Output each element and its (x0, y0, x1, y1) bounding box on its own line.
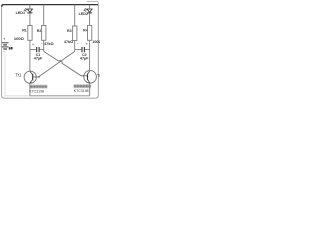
battery name 電池 (kana blobs) (9, 47, 13, 50)
svg-text:47kΩ: 47kΩ (44, 41, 54, 46)
wire LED2 to R4 (89, 13, 91, 26)
svg-text:100Ω: 100Ω (14, 36, 25, 41)
resistor R3 box (73, 26, 77, 41)
svg-text:+: + (32, 42, 35, 47)
capacitor C2 (81, 47, 83, 52)
node R2 branch wire (43, 5, 45, 26)
wire cross-coupling A (C1 node to Tr2 base) with hop (44, 51, 81, 75)
wire top VCC rail (2, 5, 98, 7)
svg-text:+: + (3, 37, 6, 42)
wire Tr2 emitter to ground (89, 83, 91, 96)
resistor R2 box (42, 26, 46, 41)
resistor R4 box (88, 26, 92, 41)
top-right stray border (87, 1, 99, 5)
wire C2 right lead (85, 49, 90, 51)
svg-text:47kΩ: 47kΩ (64, 40, 73, 44)
svg-text:R3: R3 (67, 29, 72, 33)
svg-text:R4: R4 (83, 29, 88, 33)
node LED1 branch wire (29, 5, 31, 9)
Tr1 part name トランジスタ (kana blobs) (30, 85, 47, 88)
svg-text:100Ω: 100Ω (92, 40, 100, 44)
svg-text:Tr1: Tr1 (15, 72, 22, 77)
LED D2 (83, 8, 92, 13)
svg-text:47µF: 47µF (34, 57, 43, 61)
svg-text:R1: R1 (22, 28, 27, 32)
wire C2 left lead (75, 49, 82, 51)
wire R4 to Tr2 collector (89, 40, 91, 70)
transistor Tr2 (81, 71, 96, 84)
wire ground rail (30, 95, 90, 97)
svg-text:LED2: LED2 (79, 12, 88, 16)
svg-text:KTC3198: KTC3198 (29, 89, 44, 93)
wire battery drop (faint) (5, 52, 30, 96)
svg-text:+: + (86, 41, 89, 46)
svg-text:R2: R2 (37, 29, 42, 33)
svg-text:KTC3198: KTC3198 (74, 89, 89, 93)
wire R3 to C2 node (74, 41, 76, 52)
node R3 branch wire (74, 5, 76, 26)
svg-text:LED1: LED1 (16, 11, 25, 15)
border frame (2, 4, 99, 98)
capacitor C1 (36, 47, 38, 52)
svg-text:47µF: 47µF (80, 57, 89, 61)
wire C1 left lead (30, 49, 36, 51)
wire Tr1 emitter to ground (29, 83, 31, 96)
wire R1 to Tr1 collector (29, 40, 31, 71)
wire R2 to C1 node (43, 40, 45, 51)
battery B1 (2, 43, 9, 49)
wire LED1 to R1 (29, 13, 31, 26)
wire cross-coupling B (C2 node to Tr1 base) (39, 51, 75, 77)
wire C1 right lead (40, 49, 44, 51)
Tr2 part name トランジスタ (kana blobs) (74, 85, 91, 88)
resistor R1 box (28, 26, 32, 41)
LED D1 (24, 8, 33, 13)
svg-text:Tr2: Tr2 (97, 73, 100, 78)
node LED2 branch wire (89, 5, 91, 9)
transistor Tr1 (24, 71, 40, 83)
